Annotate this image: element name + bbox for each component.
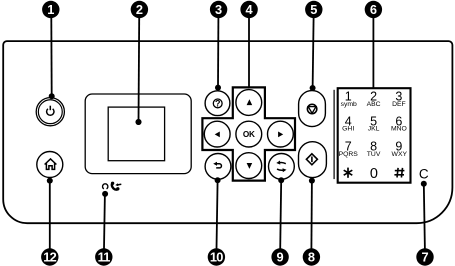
svg-text:6: 6 <box>370 2 377 17</box>
svg-text:10: 10 <box>210 250 223 265</box>
svg-text:12: 12 <box>43 250 56 265</box>
svg-text:7: 7 <box>421 250 428 265</box>
svg-text:JKL: JKL <box>368 126 380 133</box>
svg-text:GHI: GHI <box>342 126 354 133</box>
svg-text:MNO: MNO <box>391 126 407 133</box>
svg-text:2: 2 <box>136 2 143 17</box>
svg-text:4: 4 <box>246 2 254 17</box>
svg-text:OK: OK <box>243 130 255 139</box>
svg-text:symb: symb <box>341 101 357 108</box>
svg-text:C: C <box>419 166 429 181</box>
svg-text:9: 9 <box>277 250 284 265</box>
svg-text:1: 1 <box>47 2 54 17</box>
svg-text:ABC: ABC <box>367 101 381 108</box>
svg-text:DEF: DEF <box>392 101 406 108</box>
svg-text:?: ? <box>215 99 221 109</box>
svg-text:8: 8 <box>308 250 315 265</box>
svg-text:11: 11 <box>98 250 111 265</box>
svg-text:0: 0 <box>370 166 378 182</box>
svg-text:PQRS: PQRS <box>339 151 359 158</box>
svg-text:WXY: WXY <box>392 151 408 158</box>
svg-text:TUV: TUV <box>367 151 381 158</box>
svg-text:5: 5 <box>310 2 317 17</box>
svg-text:3: 3 <box>215 2 222 17</box>
